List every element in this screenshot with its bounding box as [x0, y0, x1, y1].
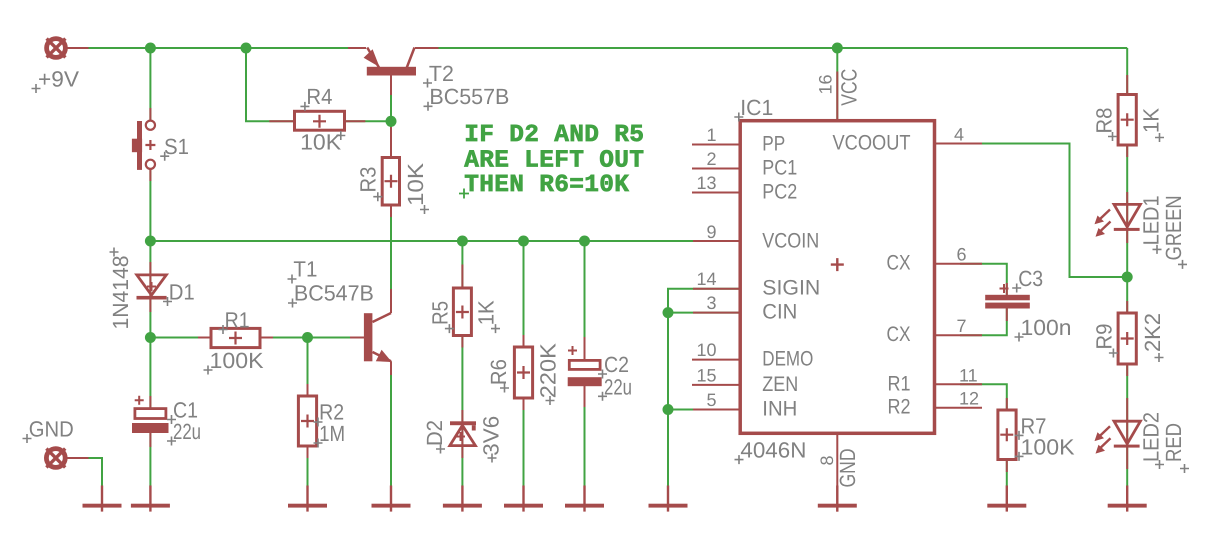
- wire GND stub: [67, 458, 102, 486]
- svg-text:16: 16: [816, 75, 836, 95]
- zener diode D2 3V6: [450, 421, 476, 445]
- svg-text:1M: 1M: [319, 421, 345, 446]
- wire S1 column top: [149, 48, 151, 121]
- wire stub R5 bottom pin: [461, 336, 463, 348]
- resistor R7: [998, 410, 1016, 460]
- wire stub T1 emitter pin: [390, 361, 392, 375]
- resistor R4: [295, 111, 345, 130]
- wire stub R6 top pin: [523, 335, 525, 347]
- svg-text:R5: R5: [428, 301, 453, 325]
- wire stub S1 pin 1: [149, 108, 151, 121]
- wire stub R3 top pin: [390, 127, 392, 158]
- svg-text:GND: GND: [29, 417, 74, 442]
- svg-text:PP: PP: [762, 133, 785, 156]
- junction R6 / VCOIN rail: [518, 236, 529, 247]
- svg-text:ZEN: ZEN: [762, 373, 798, 396]
- svg-text:1K: 1K: [1139, 108, 1164, 133]
- wire C3 to pin7: [960, 309, 1007, 336]
- svg-text:12: 12: [959, 389, 979, 409]
- capacitor C2 22u: [568, 346, 602, 386]
- svg-text:R1: R1: [888, 372, 911, 395]
- junction D1 / R1 / C1: [145, 332, 156, 343]
- wire stub T2 collector lead: [415, 47, 439, 49]
- svg-text:4046N: 4046N: [740, 438, 806, 463]
- junction CIN net / INH: [663, 404, 674, 415]
- junction R1 / R2 / T1 base: [302, 332, 313, 343]
- svg-text:S1: S1: [164, 134, 189, 159]
- ground under R2: [288, 486, 327, 512]
- svg-text:R9: R9: [1092, 324, 1117, 350]
- wire pin11 to R7: [960, 384, 1007, 410]
- svg-text:INH: INH: [762, 398, 797, 421]
- svg-text:2K2: 2K2: [1140, 313, 1165, 352]
- svg-text:+9V: +9V: [38, 67, 79, 92]
- wire pin6 to C3: [960, 264, 1007, 295]
- svg-text:10: 10: [696, 340, 716, 360]
- wire VCOIN rail: [150, 240, 738, 242]
- svg-text:R6: R6: [486, 359, 511, 385]
- junction D1 / VCOIN rail: [145, 236, 156, 247]
- wire stub R4 left pin: [269, 120, 295, 122]
- LED1 GREEN: [1095, 204, 1141, 236]
- svg-text:1: 1: [706, 125, 716, 145]
- svg-text:15: 15: [696, 365, 716, 385]
- resistor R5: [453, 288, 471, 336]
- svg-text:RED: RED: [1161, 423, 1186, 462]
- wire stub IC1 pin 14 SIGIN stub: [693, 288, 739, 290]
- resistor R9: [1118, 313, 1136, 364]
- wire stub C2 + lead: [584, 337, 586, 361]
- wire stub IC1 pin 9 VCOIN stub: [693, 240, 739, 242]
- resistor R2: [298, 396, 316, 446]
- svg-text:IF D2 AND R5: IF D2 AND R5: [464, 122, 644, 149]
- svg-text:R3: R3: [355, 167, 380, 193]
- wire stub IC1 pin 15 ZEN stub: [692, 384, 739, 386]
- svg-text:IC1: IC1: [740, 95, 773, 120]
- svg-text:C2: C2: [604, 352, 629, 377]
- junction R4 drop / +9V rail: [241, 43, 252, 54]
- wire stub IC1 pin 6 CX stub: [936, 263, 982, 265]
- ground under INH net: [649, 486, 688, 512]
- junction T2 base / R4 / R3: [386, 116, 397, 127]
- capacitor C1 22u: [132, 396, 169, 433]
- resistor R8: [1118, 95, 1136, 146]
- wire R5 column: [461, 241, 463, 288]
- svg-text:ARE LEFT OUT: ARE LEFT OUT: [464, 148, 644, 175]
- svg-text:2: 2: [706, 149, 716, 169]
- ground under T1 emitter: [372, 486, 411, 512]
- wire stub IC1 pin 4 VCOOUT stub: [936, 143, 982, 145]
- wire stub R8 bottom pin: [1126, 145, 1128, 157]
- wire T1 emitter to ground: [390, 361, 392, 486]
- supply +9V symbol: [47, 39, 66, 58]
- wire stub IC1 pin 11 R1 stub: [936, 383, 982, 385]
- wire stub IC1 pin 10 DEMO stub: [692, 359, 739, 361]
- transistor T1 BC547B (NPN): [364, 313, 392, 362]
- svg-text:CIN: CIN: [762, 301, 797, 324]
- svg-text:GREEN: GREEN: [1161, 195, 1186, 260]
- ground under R6: [504, 486, 543, 512]
- ground under IC pin8: [818, 486, 857, 512]
- svg-text:R1: R1: [225, 307, 250, 332]
- svg-text:SIGIN: SIGIN: [762, 277, 820, 300]
- svg-text:THEN R6=10K: THEN R6=10K: [464, 172, 629, 199]
- wire stub D2 leads: [461, 410, 463, 458]
- svg-text:100K: 100K: [210, 348, 264, 373]
- junction R5 / VCOIN rail: [457, 236, 468, 247]
- svg-text:9: 9: [706, 222, 716, 242]
- svg-text:R8: R8: [1092, 108, 1117, 134]
- svg-text:VCOIN: VCOIN: [762, 229, 819, 252]
- wire stub C2 - lead: [584, 386, 586, 407]
- ground under LED2: [1108, 486, 1147, 512]
- junction VCC pin16 / rail: [832, 43, 843, 54]
- wire stub R4 right pin: [344, 120, 365, 122]
- wire stub C3 top lead: [1006, 283, 1008, 295]
- wire stub R6 bottom pin: [523, 398, 525, 410]
- wire top rail (right of T2): [415, 47, 1127, 49]
- wire stub LED2 leads: [1126, 398, 1128, 469]
- svg-text:R2: R2: [888, 396, 911, 419]
- resistor R3: [382, 158, 399, 206]
- wire SIGIN/CIN/INH: [668, 289, 739, 486]
- wire stub R7 bottom pin: [1006, 460, 1008, 473]
- wire R3 to T1 collector: [390, 205, 392, 313]
- svg-text:220K: 220K: [536, 343, 561, 398]
- junction LED1 / R9 / pin4 net: [1122, 272, 1133, 283]
- svg-text:LED1: LED1: [1139, 195, 1164, 245]
- wire R4 to T2 base: [344, 120, 392, 122]
- wire stub T2 base pin: [390, 74, 392, 95]
- svg-text:D2: D2: [422, 420, 447, 446]
- wire stub T1 base pin: [350, 337, 364, 339]
- transistor T2 BC557B (PNP): [364, 48, 416, 76]
- svg-text:100K: 100K: [1021, 434, 1075, 459]
- svg-text:14: 14: [696, 269, 716, 289]
- wire stub LED1 leads: [1126, 192, 1128, 243]
- svg-text:22u: 22u: [604, 374, 632, 399]
- wire stub IC1 pin 8 GND stub: [836, 435, 838, 512]
- switch S1: [132, 121, 156, 170]
- svg-text:22u: 22u: [173, 419, 201, 444]
- wire stub +9V supply pin: [68, 47, 89, 49]
- wire T2 base to R3: [390, 95, 392, 158]
- svg-text:PC1: PC1: [762, 157, 797, 180]
- svg-text:13: 13: [696, 173, 716, 193]
- svg-text:6: 6: [957, 245, 967, 265]
- wire stub R5 top pin: [461, 265, 463, 289]
- wire stub R1 left pin: [198, 337, 211, 339]
- ground under C2: [565, 486, 604, 512]
- wire stub IC1 pin 13 PC2 stub: [692, 192, 739, 194]
- svg-text:CX: CX: [887, 252, 911, 275]
- wire R4 drop: [246, 48, 295, 121]
- wire top rail +9V (left of T2): [68, 47, 367, 49]
- ground under D2: [443, 486, 482, 512]
- wire stub IC1 pin 5 INH stub: [693, 409, 739, 411]
- svg-text:4: 4: [954, 125, 964, 145]
- wire right column: [1126, 48, 1128, 486]
- capacitor C3 100n: [985, 284, 1030, 309]
- svg-text:1K: 1K: [474, 300, 499, 325]
- svg-text:R4: R4: [306, 84, 332, 109]
- wire stub T1 collector pin: [390, 289, 392, 313]
- wire stub R8 top pin: [1126, 75, 1128, 95]
- svg-text:VCOOUT: VCOOUT: [833, 132, 911, 155]
- wire stub R3 bottom pin: [390, 205, 392, 217]
- wire stub D1 leads: [149, 262, 151, 312]
- svg-text:PC2: PC2: [762, 181, 797, 204]
- wire stub S1 pin 2: [149, 169, 151, 181]
- svg-text:10K: 10K: [403, 163, 428, 206]
- ground under GND net: [83, 486, 122, 512]
- svg-text:CX: CX: [887, 323, 911, 346]
- resistor R6: [514, 347, 532, 398]
- wire stub T2 emitter lead: [348, 47, 366, 49]
- wire stub C1 + lead: [149, 396, 151, 409]
- svg-text:1N4148: 1N4148: [108, 256, 133, 330]
- wire S1 to VCOIN rail, D1, C1 column: [149, 169, 151, 409]
- junction S1 / +9V rail: [145, 43, 156, 54]
- wire stub R9 top pin: [1126, 301, 1128, 313]
- wire stub IC1 pin 7 CX stub: [936, 334, 982, 336]
- resistor R1: [211, 328, 260, 347]
- LED2 RED: [1095, 421, 1141, 453]
- svg-text:VCC: VCC: [837, 69, 862, 106]
- wire R1 row: [150, 337, 364, 339]
- svg-text:T2: T2: [429, 61, 454, 86]
- wire stub IC1 pin 3 CIN stub: [693, 312, 739, 314]
- wire stub R2 top pin: [307, 384, 309, 396]
- svg-text:BC547B: BC547B: [294, 281, 374, 306]
- junction C2 / VCOIN rail: [579, 236, 590, 247]
- op-amp/IC IC1 4046N box: [740, 121, 934, 434]
- wire stub IC1 pin 1 PP stub: [692, 144, 739, 146]
- junction SIGIN / CIN: [663, 307, 674, 318]
- wire stub R1 right pin: [260, 337, 273, 339]
- wire C2 column: [584, 241, 586, 361]
- supply GND symbol: [46, 449, 65, 468]
- wire VCOOUT pin4 to LED column: [960, 144, 1127, 278]
- svg-text:5: 5: [706, 390, 716, 410]
- wire stub R7 top pin: [1006, 398, 1008, 410]
- wire stub R2 bottom pin: [307, 446, 309, 458]
- svg-text:BC557B: BC557B: [429, 84, 509, 109]
- svg-text:7: 7: [957, 316, 967, 336]
- wire stub IC1 pin 12 R2 stub: [936, 407, 982, 409]
- wire stub IC1 pin 2 PC1 stub: [692, 168, 739, 170]
- ground under R7: [987, 486, 1026, 512]
- wire R2 column: [307, 338, 309, 397]
- wire stub IC1 pin 16 VCC stub: [836, 72, 838, 120]
- svg-text:DEMO: DEMO: [762, 348, 813, 371]
- svg-text:3: 3: [706, 293, 716, 313]
- svg-text:3V6: 3V6: [478, 416, 503, 456]
- wire R7 to ground: [1006, 460, 1008, 487]
- svg-text:11: 11: [959, 365, 978, 385]
- wire R6 column: [523, 241, 525, 347]
- svg-text:C3: C3: [1018, 266, 1043, 291]
- wire stub C3 bottom lead: [1006, 309, 1008, 322]
- wire stub C1 - lead: [149, 433, 151, 447]
- svg-text:10K: 10K: [300, 130, 341, 155]
- svg-text:D1: D1: [169, 279, 195, 304]
- ground under C1: [131, 486, 170, 512]
- wire VCC pin16: [836, 48, 838, 119]
- wire stub R9 bottom pin: [1126, 364, 1128, 376]
- svg-text:LED2: LED2: [1139, 412, 1164, 462]
- diode D1 1N4148: [137, 275, 167, 300]
- svg-text:T1: T1: [293, 257, 317, 282]
- svg-text:100n: 100n: [1021, 315, 1072, 340]
- svg-text:GND: GND: [835, 449, 860, 488]
- wire stub GND supply pin: [67, 457, 89, 459]
